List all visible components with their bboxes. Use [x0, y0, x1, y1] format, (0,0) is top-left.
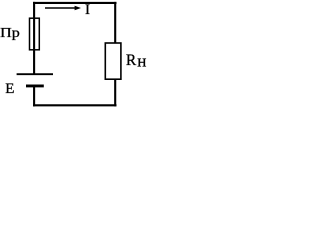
svg-text:I: I	[85, 2, 90, 18]
fuse Пр	[30, 18, 40, 50]
label Rн	[126, 52, 146, 71]
wire left upper (through fuse down to battery)	[33, 2, 35, 74]
svg-text:н: н	[137, 52, 146, 71]
svg-text:R: R	[126, 52, 137, 69]
battery E : short thick plate (-)	[26, 84, 44, 87]
wire bottom	[33, 104, 117, 106]
battery E : long thin plate (+)	[17, 73, 53, 75]
wire right upper	[114, 2, 116, 43]
wire right lower	[114, 79, 116, 106]
svg-text:E: E	[5, 81, 14, 97]
svg-text:Пр: Пр	[0, 25, 20, 40]
wire left lower (battery to bottom)	[33, 86, 35, 106]
wire top	[33, 2, 117, 4]
current arrow	[45, 6, 81, 10]
resistor Rн	[105, 43, 121, 79]
